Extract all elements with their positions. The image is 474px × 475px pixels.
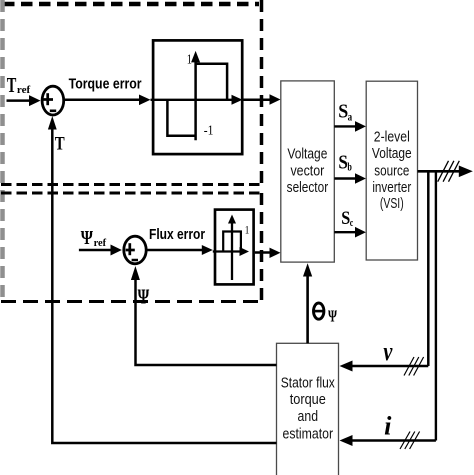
svg-text:Torque error: Torque error xyxy=(69,75,142,92)
svg-text:Flux error: Flux error xyxy=(149,226,205,243)
wire: axis through torque comparator xyxy=(151,99,234,101)
svg-text:v: v xyxy=(383,337,392,366)
wire: Sb selector to VSI xyxy=(334,177,356,179)
wire: comparator output to selector xyxy=(244,99,272,102)
minus sign in S1 xyxy=(50,110,56,113)
svg-text:ref: ref xyxy=(94,237,107,249)
block: flux hysteresis comparator box xyxy=(215,210,254,285)
svg-text:T: T xyxy=(55,135,65,155)
svg-text:Ψ: Ψ xyxy=(328,307,337,326)
dashed box 1 right edge xyxy=(260,0,264,184)
wire: i into estimator xyxy=(352,439,436,442)
svg-text:1: 1 xyxy=(245,222,250,236)
torque relay lower step xyxy=(167,100,195,136)
svg-text:Ψ: Ψ xyxy=(138,285,150,309)
wire: Sc selector to VSI xyxy=(334,231,356,233)
svg-text:T: T xyxy=(7,73,17,97)
wire: VSI three-phase output xyxy=(418,170,461,173)
svg-text:selector: selector xyxy=(287,179,329,196)
svg-text:Ψ: Ψ xyxy=(81,227,93,249)
dashed box 1 (torque loop) top edge xyxy=(3,2,259,7)
plus sign in S2 xyxy=(126,249,135,252)
svg-text:vector: vector xyxy=(290,163,324,180)
dashed box 2 bottom edge xyxy=(1,300,263,303)
wire: Psi feedback from estimator xyxy=(136,277,277,365)
svg-text:estimator: estimator xyxy=(283,426,334,443)
plus sign in S1 xyxy=(43,98,53,101)
svg-text:inverter: inverter xyxy=(372,179,411,196)
wire: T feedback from estimator xyxy=(52,127,276,443)
wire: axis through flux comparator xyxy=(213,250,240,252)
wire: flux comparator output to selector xyxy=(255,251,271,254)
wire: torque error to comparator xyxy=(65,99,140,102)
svg-text:b: b xyxy=(347,160,352,174)
block: torque hysteresis comparator box xyxy=(153,40,242,154)
wire: Sa selector to VSI xyxy=(334,125,356,127)
svg-text:Voltage: Voltage xyxy=(287,145,327,162)
svg-text:source: source xyxy=(374,162,409,179)
svg-text:i: i xyxy=(384,412,392,441)
svg-text:2-level: 2-level xyxy=(374,129,410,146)
dashed box 2 (flux loop) top edge xyxy=(1,192,263,195)
wire: v into estimator xyxy=(352,365,428,368)
block U2: 2-level Voltage source inverter (VSI) xyxy=(366,81,417,260)
dashed box 1 bottom edge xyxy=(1,183,263,186)
slash marks on v wire xyxy=(404,357,414,376)
flux relay step xyxy=(223,232,241,252)
torque relay vertical axis xyxy=(194,60,197,140)
slash marks on VSI output xyxy=(438,161,449,182)
wire: theta_psi from estimator to selector xyxy=(306,274,309,343)
wire: Tref input xyxy=(7,99,31,102)
wire: tap to i measurement xyxy=(435,171,437,440)
summing junction S1 (torque) xyxy=(42,86,64,115)
svg-text:Voltage: Voltage xyxy=(372,145,412,162)
wire: flux error to comparator xyxy=(147,249,203,252)
svg-text:and: and xyxy=(298,408,319,425)
torque relay upper step xyxy=(196,64,228,100)
flux relay vertical axis xyxy=(231,222,233,280)
svg-text:ref: ref xyxy=(17,84,31,96)
label: Theta_psi xyxy=(314,303,324,319)
block U1: Voltage vector selector xyxy=(281,81,335,262)
block U3: Stator flux torque and estimator xyxy=(277,343,339,475)
svg-text:-1: -1 xyxy=(204,124,214,139)
svg-text:a: a xyxy=(348,110,353,124)
wire: tap to v measurement xyxy=(427,171,430,366)
svg-text:c: c xyxy=(350,217,354,229)
slash marks on i wire xyxy=(400,432,410,450)
dashed box 2 right edge xyxy=(260,193,264,301)
summing junction S2 (flux) xyxy=(124,236,146,264)
dashed boxes left edge (gray) xyxy=(0,0,5,302)
wire: Psi_ref input xyxy=(79,249,111,252)
minus sign in S2 xyxy=(132,259,138,262)
svg-text:Stator flux: Stator flux xyxy=(281,374,335,391)
svg-text:1: 1 xyxy=(187,53,192,68)
svg-text:(VSI): (VSI) xyxy=(380,195,404,212)
svg-text:torque: torque xyxy=(290,391,326,408)
